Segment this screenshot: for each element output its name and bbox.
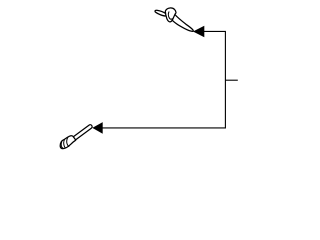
bulb B1 body	[172, 14, 193, 31]
screw S1	[60, 125, 92, 149]
screw S1 ridge arc 2	[64, 139, 66, 148]
bulb B1	[154, 8, 193, 31]
bulb B1 collar inner arc	[168, 12, 172, 19]
screw S1 thread cluster	[60, 136, 75, 149]
bulb B1 collar	[165, 8, 176, 22]
bulb B1 pin	[154, 9, 167, 17]
screw S1 ridge arc 1	[67, 137, 69, 146]
tick	[225, 79, 237, 81]
arrow bottom	[92, 122, 102, 134]
wire	[103, 31, 226, 128]
screw S1 ridge arc 3	[61, 141, 63, 148]
screw S1 shaft	[73, 125, 92, 140]
arrow top	[193, 26, 204, 37]
